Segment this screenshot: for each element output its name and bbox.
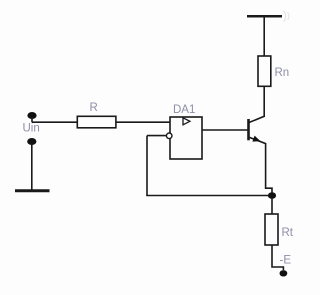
node emitter junction dot [268,192,276,199]
svg-text:DA1: DA1 [173,104,195,116]
wire Rn top to power rail [263,17,265,56]
resistor Rn [258,56,271,86]
wire feedback bottom horizontal to emitter node [146,195,272,197]
wire resistor R to op-amp non-inverting input [116,121,170,123]
op-amp DA1 gain triangle [183,118,190,125]
transistor Q1 collector lead [249,86,264,123]
wire upper terminal to resistor R [32,121,77,123]
ground [15,189,50,192]
transistor Q1 emitter arrow [252,136,260,142]
node -E terminal dot [280,270,288,276]
svg-text:-E: -E [280,255,292,267]
op-amp DA1 body [170,117,202,159]
node Uin upper terminal dot [27,112,36,119]
svg-text:Uin: Uin [23,123,40,135]
power rail bar [247,15,282,18]
wire stub from upper terminal [31,117,33,122]
resistor R [77,116,116,128]
wire Rt bottom to -E terminal [272,245,283,270]
svg-text:Rt: Rt [282,227,294,239]
resistor Rt [265,214,278,245]
svg-text:R: R [90,102,98,114]
wire feedback vertical [146,136,148,196]
transistor Q1 emitter lead [249,137,272,193]
wire feedback horizontal into inverting input [147,135,166,137]
wire op-amp output to transistor base [202,129,249,131]
transistor Q1 base bar [247,119,250,140]
op-amp inverting input circle [166,133,172,139]
svg-text:Rn: Rn [275,67,290,79]
jpeg ring artifact arcs at rail end [284,11,290,22]
wire junction to resistor Rt [271,198,273,214]
wire lower terminal to ground [31,143,33,191]
node Uin lower terminal dot [27,138,36,145]
